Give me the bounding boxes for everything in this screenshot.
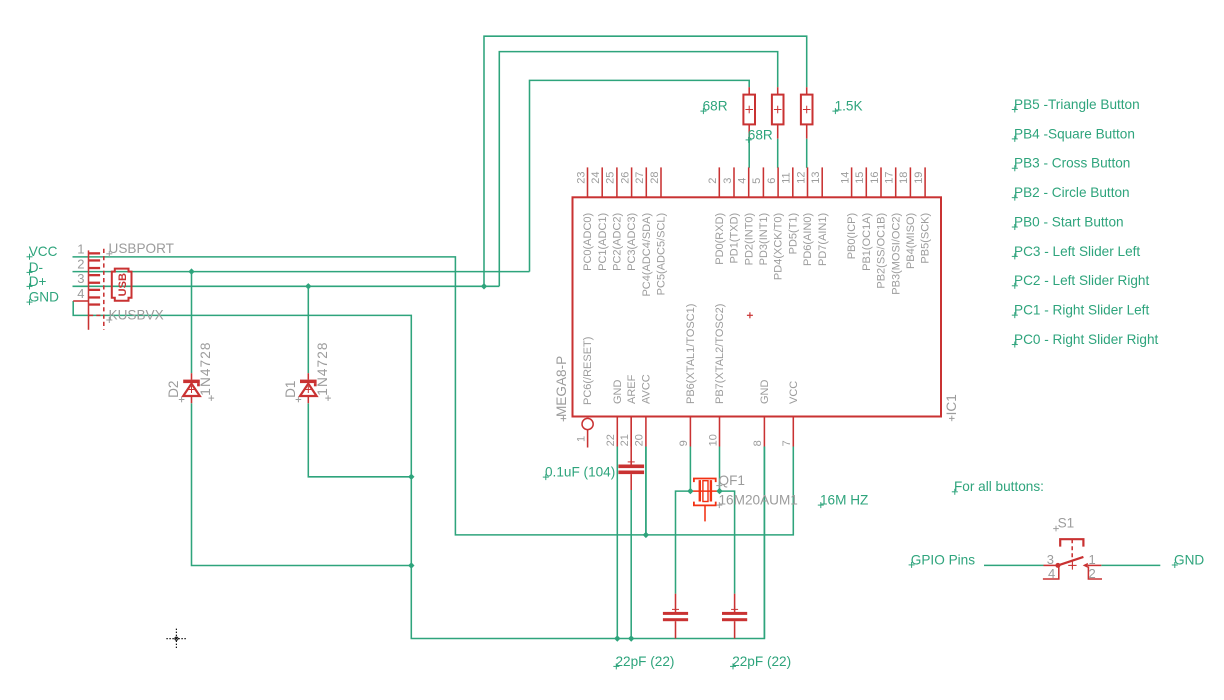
svg-text:PB3 - Cross Button: PB3 - Cross Button [1014,156,1130,171]
svg-text:9: 9 [678,440,690,446]
svg-text:7: 7 [781,440,793,446]
svg-text:2: 2 [1089,566,1096,581]
svg-text:GPIO Pins: GPIO Pins [911,552,975,567]
svg-text:PD1(TXD): PD1(TXD) [729,213,741,264]
svg-text:15: 15 [854,172,866,184]
svg-text:PC3 - Left Slider Left: PC3 - Left Slider Left [1014,244,1140,259]
svg-text:13: 13 [810,172,822,184]
svg-text:16M HZ: 16M HZ [820,493,868,508]
svg-text:PC0(ADC0): PC0(ADC0) [582,213,594,271]
svg-text:27: 27 [634,172,646,184]
svg-text:For all buttons:: For all buttons: [954,479,1044,494]
svg-text:PB5(SCK): PB5(SCK) [920,213,932,264]
svg-text:MEGA8-P: MEGA8-P [554,356,569,417]
svg-text:23: 23 [575,172,587,184]
svg-text:5: 5 [751,178,763,184]
svg-text:PC0 - Right Slider Right: PC0 - Right Slider Right [1014,332,1159,347]
svg-text:VCC: VCC [29,244,58,259]
svg-text:PC5(ADC5/SCL): PC5(ADC5/SCL) [656,213,668,296]
svg-text:24: 24 [590,172,602,184]
svg-text:20: 20 [634,434,646,446]
svg-text:PC6(/RESET): PC6(/RESET) [582,337,594,405]
svg-text:GND: GND [29,290,59,305]
svg-text:4: 4 [77,286,84,301]
svg-text:D+: D+ [29,274,47,289]
svg-text:KUSBVX: KUSBVX [109,307,164,322]
svg-text:GND: GND [1174,552,1204,567]
svg-text:1: 1 [77,242,84,257]
svg-text:6: 6 [766,178,778,184]
svg-text:4: 4 [1048,566,1055,581]
svg-text:1N4728: 1N4728 [198,341,213,395]
svg-text:4: 4 [737,178,749,184]
svg-text:PB2(SS/OC1B): PB2(SS/OC1B) [876,213,888,289]
svg-text:PD5(T1): PD5(T1) [787,213,799,255]
svg-text:17: 17 [884,172,896,184]
svg-text:PD0(RXD): PD0(RXD) [714,213,726,265]
svg-text:PD3(INT1): PD3(INT1) [758,213,770,266]
svg-text:68R: 68R [703,99,728,114]
svg-text:S1: S1 [1058,515,1075,530]
svg-text:PC3(ADC3): PC3(ADC3) [626,213,638,271]
svg-text:PB4(MISO): PB4(MISO) [905,213,917,269]
svg-text:QF1: QF1 [719,473,745,488]
svg-text:D2: D2 [166,381,181,398]
svg-text:USBPORT: USBPORT [109,241,174,256]
svg-text:26: 26 [619,172,631,184]
svg-text:PB7(XTAL2/TOSC2): PB7(XTAL2/TOSC2) [714,304,726,404]
svg-text:25: 25 [605,172,617,184]
svg-text:14: 14 [839,172,851,184]
svg-text:0.1uF (104): 0.1uF (104) [545,465,615,480]
svg-text:3: 3 [1047,552,1054,567]
svg-text:PB0 - Start Button: PB0 - Start Button [1014,214,1124,229]
svg-text:11: 11 [781,172,793,183]
svg-text:22: 22 [605,434,617,446]
svg-text:PC1 - Right Slider Left: PC1 - Right Slider Left [1014,303,1149,318]
svg-text:22pF (22): 22pF (22) [732,654,791,669]
svg-text:VCC: VCC [788,381,800,404]
svg-text:PD7(AIN1): PD7(AIN1) [817,213,829,266]
svg-text:16M20AUM1: 16M20AUM1 [719,493,798,508]
svg-text:PD6(AIN0): PD6(AIN0) [802,213,814,266]
svg-text:PB0(ICP): PB0(ICP) [846,213,858,259]
svg-text:3: 3 [722,178,734,184]
svg-text:8: 8 [752,440,764,446]
svg-text:2: 2 [77,256,84,271]
svg-text:1.5K: 1.5K [835,99,863,114]
svg-text:PC2 - Left Slider Right: PC2 - Left Slider Right [1014,273,1149,288]
svg-text:PB6(XTAL1/TOSC1): PB6(XTAL1/TOSC1) [685,304,697,404]
svg-text:PC1(ADC1): PC1(ADC1) [597,213,609,271]
svg-text:IC1: IC1 [944,394,959,415]
svg-text:AREF: AREF [626,374,638,404]
svg-text:16: 16 [869,172,881,184]
svg-text:12: 12 [795,172,807,184]
svg-text:1: 1 [1089,552,1096,567]
svg-text:PD4(XCK/T0): PD4(XCK/T0) [773,213,785,280]
svg-text:18: 18 [898,172,910,184]
svg-text:2: 2 [707,178,719,184]
svg-text:PC2(ADC2): PC2(ADC2) [612,213,624,271]
svg-text:GND: GND [612,380,624,405]
svg-text:19: 19 [913,172,925,184]
svg-text:1N4728: 1N4728 [315,341,330,395]
svg-text:28: 28 [649,172,661,184]
svg-text:PB5 -Triangle Button: PB5 -Triangle Button [1014,97,1140,112]
svg-text:22pF (22): 22pF (22) [616,654,675,669]
svg-text:PB1(OC1A): PB1(OC1A) [861,213,873,271]
svg-text:1: 1 [575,436,587,442]
svg-text:PC4(ADC4/SDA): PC4(ADC4/SDA) [641,213,653,297]
svg-text:USB: USB [117,273,129,296]
svg-text:PB4 -Square Button: PB4 -Square Button [1014,126,1135,141]
svg-text:PD2(INT0): PD2(INT0) [743,213,755,266]
svg-text:PB2 - Circle Button: PB2 - Circle Button [1014,185,1130,200]
svg-text:68R: 68R [748,127,773,142]
svg-text:AVCC: AVCC [641,374,653,404]
svg-text:10: 10 [707,434,719,446]
svg-text:3: 3 [77,271,84,286]
svg-text:D-: D- [29,260,43,275]
svg-text:21: 21 [619,434,631,446]
svg-text:GND: GND [759,380,771,405]
svg-text:D1: D1 [283,381,298,398]
svg-text:PB3(MOSI/OC2): PB3(MOSI/OC2) [890,213,902,295]
